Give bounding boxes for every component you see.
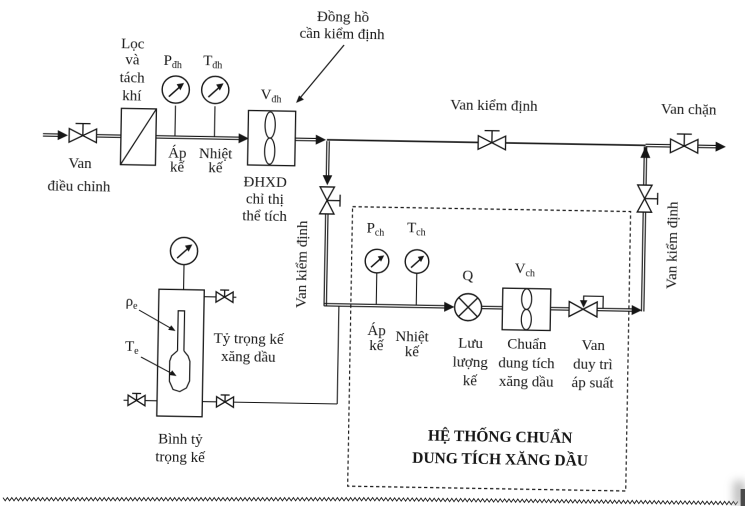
svg-text:kế: kế	[369, 338, 384, 354]
wire: pipe Q to standard meter Vch	[482, 305, 503, 307]
valve: vessel bottom-left drain	[136, 393, 138, 400]
label pointer ρe	[139, 310, 173, 329]
pressure gauge Pch (Áp kế)	[365, 249, 389, 273]
wire: pipe to lower right junction	[597, 307, 633, 310]
svg-text:lượng: lượng	[452, 354, 488, 371]
label pointer Te	[141, 357, 174, 374]
flow arrow down into branch valve	[323, 175, 333, 185]
svg-text:dung tích: dung tích	[498, 355, 555, 372]
thermometer Tch (Nhiệt kế)	[405, 250, 429, 274]
svg-text:Áp: Áp	[367, 322, 386, 339]
density vessel "Bình tỷ trọng kế"	[157, 289, 205, 417]
flow arrow up at right junction	[640, 146, 650, 158]
svg-text:Van: Van	[68, 156, 92, 172]
outlet flow arrow	[716, 142, 726, 152]
svg-text:Q: Q	[462, 268, 473, 284]
svg-text:Lưu: Lưu	[458, 336, 484, 352]
valve "Van điều chỉnh"	[82, 124, 84, 136]
gauge stem Tch	[415, 274, 418, 306]
torn page edge zigzag	[3, 498, 738, 505]
filter "Lọc và tách khí"	[120, 108, 156, 165]
svg-text:Van kiểm định: Van kiểm định	[450, 97, 538, 115]
svg-text:Van chặn: Van chặn	[661, 102, 717, 119]
svg-text:kế: kế	[208, 160, 223, 176]
svg-text:chỉ thị: chỉ thị	[246, 191, 284, 208]
pressure gauge Pđh (Áp kế)	[162, 76, 190, 104]
svg-text:cần kiểm định: cần kiểm định	[299, 26, 385, 43]
hydrometer bulb	[169, 351, 190, 392]
flow arrow into regulating valve	[58, 130, 68, 140]
svg-text:áp suất: áp suất	[571, 375, 614, 392]
wire: right vertical pipe lower	[641, 212, 643, 311]
wire: lower pipe to flow meter	[324, 304, 446, 306]
valve "Van kiểm định" (left branch)	[320, 187, 335, 214]
gauge on density vessel	[170, 237, 198, 265]
flow arrow into right vertical pipe	[632, 305, 642, 315]
svg-text:kế: kế	[170, 159, 185, 175]
flow arrow at branch junction	[316, 135, 326, 145]
svg-text:trọng kế: trọng kế	[155, 449, 205, 466]
svg-text:kế: kế	[405, 344, 420, 360]
wire: pipe Vch to pressure-maintaining valve	[551, 306, 570, 308]
wire: outlet pipe	[698, 144, 717, 146]
dashed boundary: HỆ THỐNG CHUẨN DUNG TÍCH XĂNG DẦU	[348, 207, 631, 491]
thermometer Tđh (Nhiệt kế)	[201, 76, 229, 104]
svg-text:ĐHXD: ĐHXD	[243, 174, 287, 191]
svg-text:thể tích: thể tích	[242, 208, 287, 225]
svg-text:tách: tách	[120, 70, 146, 86]
page corner dark block	[741, 489, 745, 506]
wire: pipe meter Vđh to branch junction	[295, 137, 317, 139]
flow arrow into flow meter Q	[444, 302, 454, 312]
wire: riser to lower pipe	[337, 306, 339, 404]
wire: left branch pipe lower	[324, 214, 326, 306]
svg-text:xăng dầu: xăng dầu	[221, 349, 276, 366]
svg-text:và: và	[125, 52, 140, 68]
svg-text:duy trì: duy trì	[573, 357, 613, 374]
svg-text:điều chỉnh: điều chỉnh	[47, 178, 111, 195]
wire: pipe valve to filter	[97, 134, 121, 136]
svg-text:Van kiểm định: Van kiểm định	[664, 201, 682, 289]
svg-text:kế: kế	[463, 373, 478, 389]
page corner shadow	[734, 481, 745, 506]
meter under test Vđh (ĐHXD)	[248, 110, 296, 165]
wire: vessel bottom-left stub	[124, 399, 128, 401]
valve: vessel bottom-right	[224, 395, 226, 402]
wire: inlet pipe	[43, 133, 59, 135]
svg-text:xăng dầu: xăng dầu	[499, 374, 554, 391]
svg-text:Van kiểm định: Van kiểm định	[294, 220, 312, 308]
pointer arrow to meter Vđh	[299, 44, 344, 100]
svg-text:Nhiệt: Nhiệt	[395, 329, 429, 346]
hydrometer stem (Tỷ trọng kế)	[178, 311, 185, 351]
valve: vessel top-right tap	[224, 290, 226, 297]
wire: left branch pipe upper	[325, 141, 328, 176]
wire: pipe filter to meter Vđh	[156, 136, 241, 137]
gauge stem on vessel	[183, 265, 185, 290]
valve "Van chặn"	[683, 134, 685, 146]
svg-text:Tỷ trọng kế: Tỷ trọng kế	[213, 331, 284, 348]
wire: density line to riser	[234, 402, 338, 404]
valve "Van kiểm định" (top)	[491, 131, 493, 143]
svg-text:Bình tỷ: Bình tỷ	[158, 431, 203, 448]
gauge stem Pđh	[174, 106, 177, 136]
svg-text:Đồng hồ: Đồng hồ	[317, 9, 369, 26]
gauge stem Pch	[375, 273, 378, 304]
svg-text:Lọc: Lọc	[121, 36, 145, 52]
wire: main line to Van kiểm định	[327, 140, 478, 143]
wire: right vertical pipe upper	[643, 147, 646, 185]
svg-text:khí: khí	[122, 88, 141, 104]
wire: vessel bottom-right line	[202, 401, 216, 403]
svg-text:DUNG TÍCH XĂNG DẦU: DUNG TÍCH XĂNG DẦU	[412, 449, 588, 470]
valve "Van duy trì áp suất" with pilot loop	[569, 301, 597, 316]
svg-text:HỆ THỐNG CHUẨN: HỆ THỐNG CHUẨN	[428, 427, 573, 448]
flow arrow into meter Vđh	[239, 133, 249, 143]
wire: main line to right junction	[506, 143, 646, 145]
node: vessel top-right tap line	[204, 296, 216, 298]
standard volume meter Vch (Chuẩn dung tích xăng dầu)	[502, 288, 551, 330]
wire: right junction to Van chặn	[646, 143, 671, 145]
flow meter Q (Lưu lượng kế)	[454, 293, 481, 320]
svg-text:Van: Van	[581, 338, 605, 354]
valve "Van kiểm định" (right vertical)	[637, 185, 652, 212]
svg-text:Chuẩn: Chuẩn	[507, 336, 547, 353]
gauge stem Tđh	[213, 106, 216, 136]
